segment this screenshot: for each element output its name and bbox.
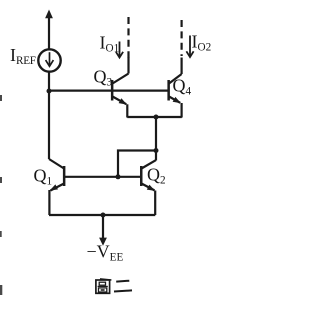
wire: base rail of Q3 and Q4 bbox=[49, 89, 169, 91]
svg-text:Q2: Q2 bbox=[147, 165, 166, 187]
junction dot on mid vertical bbox=[154, 148, 159, 153]
wire: IREF branch top lead with up arrow bbox=[45, 10, 53, 50]
wire: base rail of Q1 and Q2 bbox=[65, 176, 141, 178]
dashed output line IO1 bbox=[127, 17, 129, 58]
wire: mid vertical from Q3/Q4 emitters to Q2 collector bbox=[155, 117, 157, 161]
wire: current source to node A bbox=[48, 72, 50, 92]
wire: emitter rail of Q3 and Q4 bbox=[127, 116, 182, 118]
current arrow IO2 bbox=[186, 36, 193, 58]
transistor Q3 bbox=[111, 57, 129, 118]
svg-text:−VEE: −VEE bbox=[87, 242, 124, 264]
svg-text:Q4: Q4 bbox=[173, 76, 192, 98]
transistor Q4 bbox=[167, 58, 181, 118]
wire: loop from Q2 collector node to base rail bbox=[118, 151, 156, 178]
wire: bottom rail (emitters of Q1/Q2) bbox=[49, 214, 155, 216]
current arrow IO1 bbox=[116, 42, 123, 58]
left-edge scan remnant marks bbox=[0, 95, 2, 295]
node A junction dot bbox=[47, 89, 52, 94]
wire: node A down to Q1 collector bbox=[48, 91, 50, 159]
transistor Q2 bbox=[140, 160, 156, 215]
transistor Q1 bbox=[49, 159, 65, 215]
caption glyph 二 (drawn) bbox=[114, 281, 132, 292]
junction dot on Q1/Q2 base rail bbox=[116, 174, 121, 179]
svg-text:Q1: Q1 bbox=[34, 166, 53, 188]
VEE supply arrow bbox=[99, 215, 107, 246]
dashed output line IO2 bbox=[181, 20, 183, 56]
svg-text:Q3: Q3 bbox=[94, 67, 113, 89]
arrow inside current source (pointing down) bbox=[46, 52, 54, 66]
svg-text:IO2: IO2 bbox=[192, 32, 212, 54]
svg-text:IO1: IO1 bbox=[100, 33, 120, 55]
current source IREF (circle symbol) bbox=[38, 49, 60, 71]
junction dot on bottom rail bbox=[101, 213, 106, 218]
caption glyph 圖 (drawn) bbox=[96, 279, 112, 294]
junction dot on emitter rail bbox=[154, 115, 159, 120]
svg-text:IREF: IREF bbox=[10, 45, 36, 67]
